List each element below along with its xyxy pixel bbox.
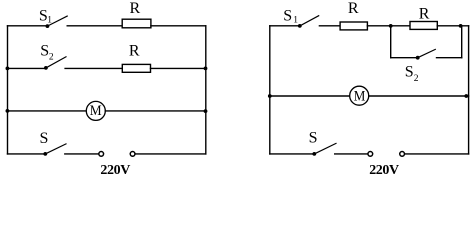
wire: left circuit bottom row, S to left supply terminal [65,153,99,155]
wire: left circuit motor branch, motor to right junction [105,110,206,112]
resistor R (left circuit branch2) [122,64,150,72]
node: right circuit motor branch left junction [268,94,272,98]
switch S (left circuit) pivot dot [43,152,47,156]
resistor R (right circuit, second) [410,22,437,30]
switch S (left circuit) blade (open) [45,144,66,154]
wire: right circuit bottom row, S to left supply terminal [335,153,368,155]
switch S (right circuit) blade (open) [314,143,336,154]
svg-text:S: S [40,130,49,147]
svg-text:R: R [129,43,140,60]
wire: left circuit branch2, S2 to R [65,67,122,69]
resistor R (right circuit, first) [340,22,367,30]
wire: right circuit left vertical [269,26,271,154]
wire: right circuit top row, S1 to first R [319,25,340,27]
wire: right circuit top row, second R to right vertical [437,25,468,27]
wire: right circuit top row, corner to S1 pivot [270,25,300,27]
wire: S2 bypass branch, corner to S2 pivot [391,57,418,59]
wire: left circuit top row, R to right vertical [151,25,206,27]
wire: right circuit top row, first R to second R with node [367,25,410,27]
wire: right circuit motor branch, motor to right junction [369,95,469,97]
svg-text:1: 1 [47,16,52,26]
node: right circuit junction after second R [459,24,463,28]
terminal: left circuit supply terminal (right) [130,152,135,157]
wire: left circuit branch2, R to right junction [151,67,206,69]
node: left circuit motor branch right junction [204,109,208,113]
wire: left circuit top row, source side to S1 pivot [8,25,48,27]
wire: S2 bypass branch left vertical [390,26,392,58]
wire: right circuit bottom row, left vertical to S pivot [270,153,315,155]
wire: left circuit motor branch, junction to motor [7,110,86,112]
switch S1 (left circuit) blade (open) [47,16,67,26]
node: left circuit branch2 right junction [204,67,208,71]
switch S2 (left circuit) blade (open) [46,57,66,68]
switch S1 (left circuit) pivot dot [46,24,50,28]
svg-text:R: R [348,0,359,17]
svg-text:1: 1 [293,16,298,26]
svg-text:R: R [419,6,430,23]
wire: left circuit branch2, junction to S2 pivot [7,67,46,69]
terminal: right circuit supply terminal (right) [400,152,405,157]
wire: left circuit bottom row, left vertical to S pivot [8,153,46,155]
svg-text:M: M [354,89,366,105]
wire: S2 bypass branch right vertical [461,26,463,58]
wire: left circuit right vertical [205,26,207,154]
terminal: right circuit supply terminal (left) [368,152,373,157]
svg-text:220V: 220V [100,163,130,178]
terminal: left circuit supply terminal (left) [99,152,104,157]
svg-text:M: M [90,103,102,119]
svg-text:S: S [405,64,414,81]
node: right circuit motor branch right junction [464,94,468,98]
svg-text:R: R [130,0,141,17]
svg-text:2: 2 [49,52,54,62]
switch S2 (right circuit) blade (open) [418,49,436,57]
wire: right circuit motor branch, junction to motor [270,95,350,97]
motor M (right circuit) [350,86,369,105]
wire: S2 bypass branch, blade gap to right corner [437,57,462,59]
switch S1 (right circuit) blade (open) [300,16,319,26]
switch S2 (left circuit) pivot dot [44,66,48,70]
wire: right circuit bottom row, right supply terminal to right vertical [405,153,469,155]
wire: left circuit top row, S1 to R [67,25,122,27]
svg-text:2: 2 [414,74,419,84]
node: left circuit motor branch left junction [6,109,10,113]
wire: left circuit bottom row, right supply terminal to right vertical [135,153,206,155]
motor M (left circuit) [86,101,105,120]
svg-text:220V: 220V [369,163,399,178]
node: left circuit branch2 left junction [6,67,10,71]
switch S1 (right circuit) pivot dot [298,24,302,28]
switch S (right circuit) pivot dot [312,152,316,156]
svg-text:S: S [40,43,49,60]
switch S2 (right circuit) pivot dot [416,56,420,60]
svg-text:S: S [283,7,292,24]
svg-text:S: S [309,130,318,147]
resistor R (left circuit top branch) [122,19,151,28]
wire: left circuit left vertical [7,26,9,154]
node: right circuit junction before second R [389,24,393,28]
wire: right circuit right vertical [468,26,470,154]
